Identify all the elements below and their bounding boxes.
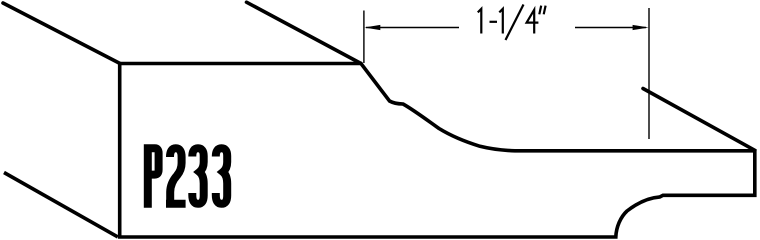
digit 4 [527, 10, 539, 34]
digit 2 [170, 148, 182, 200]
extension line left [363, 11, 365, 64]
extension line right [648, 8, 650, 139]
dimension arrowhead right [633, 25, 649, 30]
letter P [148, 148, 159, 208]
inch mark [539, 6, 545, 15]
fraction slash [506, 5, 524, 41]
digit 1 [478, 9, 482, 34]
digit 3 [192, 148, 203, 204]
dimension line right segment [575, 27, 646, 29]
perspective edge top-middle [247, 2, 362, 63]
dimension text 1-1/4" [478, 5, 546, 41]
dimension line left segment [366, 27, 459, 29]
digit 1 [499, 9, 503, 34]
perspective edge top-right [643, 89, 755, 151]
perspective edge bottom-left [4, 173, 118, 237]
dimension arrowhead left [364, 25, 380, 30]
perspective edge top-left [3, 3, 120, 64]
moulding profile outline [120, 64, 755, 238]
label P233 [148, 148, 227, 208]
hyphen [490, 21, 498, 23]
digit 3 [216, 148, 227, 204]
